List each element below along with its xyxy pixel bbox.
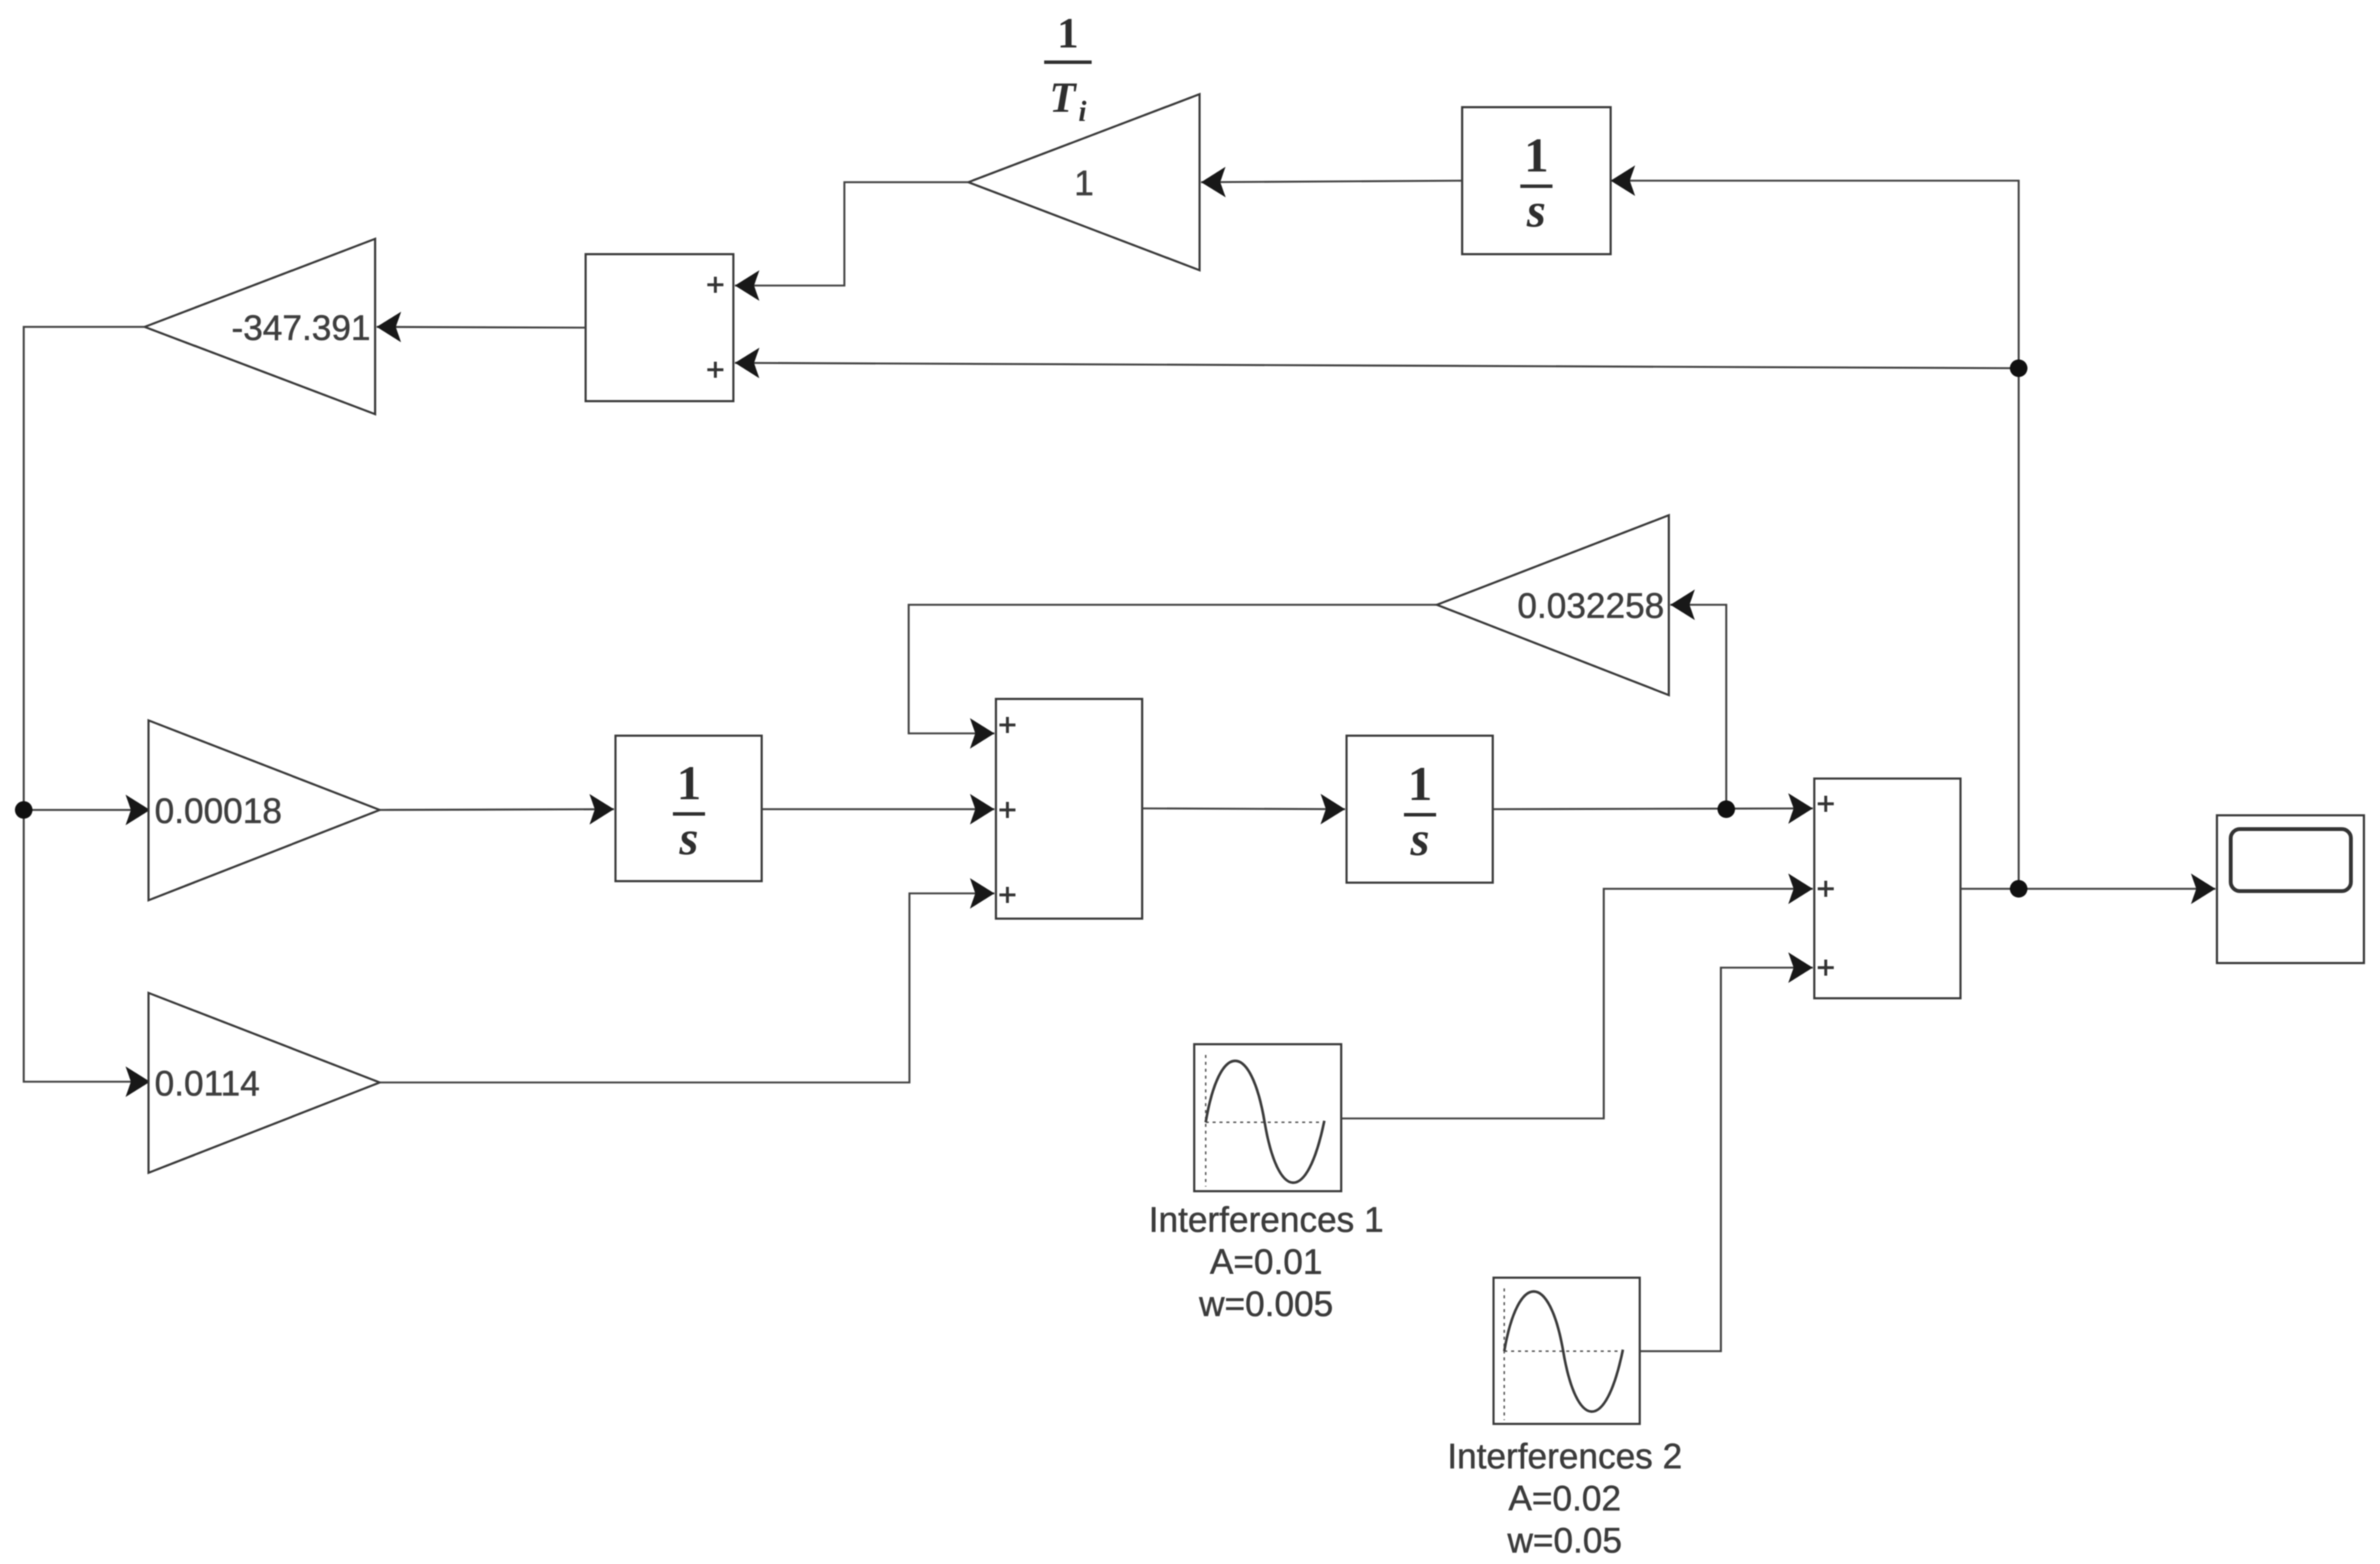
svg-text:s: s [1526,183,1546,237]
sine source W2 block [1494,1278,1640,1424]
svg-text:1: 1 [1524,128,1549,182]
integrator I2 block 1/s [615,736,762,881]
junction dot before sum S2 [1718,801,1735,818]
wire from sum S2 output junction up and left into integrator I1 [1611,181,2019,889]
svg-text:0.00018: 0.00018 [155,791,282,831]
junction dot left [15,802,33,819]
svg-text:s: s [679,811,699,865]
svg-text:s: s [1410,811,1430,866]
wire gain G2 output to sum S1 top input (feedback) [909,605,1437,733]
sum S2 plus sign mid [1818,881,1834,897]
sum S1 block [996,699,1142,919]
sum S2 plus sign top [1818,796,1834,812]
wire gain G4 output to sum S1 bottom input [380,893,994,1082]
wire sine W2 output to sum S2 bottom input [1640,968,1813,1351]
sum S2 block [1814,779,1960,998]
sum S0 block [586,254,733,401]
integrator I1 block 1/s [1462,107,1611,254]
wire integrator I3 output to sum S2 top input [1493,808,1813,809]
sine W1 curve [1206,1061,1324,1183]
sum S1 plus sign bottom [1000,887,1016,903]
svg-text:A=0.02: A=0.02 [1508,1478,1621,1518]
sine W1 dashed axes [1205,1055,1206,1187]
junction dot on scope wire [2010,880,2028,898]
wire gain G3 output to integrator I2 [380,809,614,810]
svg-text:0.0114: 0.0114 [155,1063,260,1103]
wire sine W1 output to sum S2 mid input [1341,889,1813,1118]
svg-text:w=0.005: w=0.005 [1198,1284,1333,1324]
svg-text:Interferences 2: Interferences 2 [1448,1436,1683,1476]
sum S2 plus sign bottom [1818,960,1834,976]
scope block [2217,815,2364,963]
svg-text:0.032258: 0.032258 [1517,586,1664,625]
svg-text:T: T [1050,74,1078,122]
wire integrator I2 output to sum S1 mid input [762,808,994,811]
gain T1 name label fraction 1/Ti [1044,10,1092,128]
svg-text:Interferences 1: Interferences 1 [1149,1200,1384,1239]
gain T1 triangle (1/Ti, value 1) [968,94,1200,270]
wire gain G1 output down left side to gain G4 input [24,327,150,1082]
long feedback wire from junction at x2637 to sum S0 bottom input [735,363,2019,368]
sine W2 dashed axes [1503,1288,1505,1420]
svg-text:A=0.01: A=0.01 [1210,1242,1322,1282]
sum S1 plus sign mid [1000,802,1016,818]
sum S0 plus sign bottom [707,362,723,378]
wire sum S0 output to gain G1 input [377,327,586,328]
sine W2 curve [1504,1291,1623,1412]
gain G3 triangle 0.00018 [149,720,380,900]
gain G4 triangle 0.0114 [149,993,380,1173]
wire sum S1 output to integrator I3 [1142,808,1345,809]
svg-text:1: 1 [1408,756,1432,811]
gain G2 triangle 0.032258 [1437,515,1669,695]
wire branch from left junction to gain G3 input [24,809,150,811]
svg-text:1: 1 [1074,163,1094,203]
gain G1 triangle -347.391 [145,239,375,414]
svg-text:1: 1 [1057,10,1079,57]
integrator I3 block 1/s [1347,736,1493,883]
svg-text:i: i [1079,96,1087,128]
sum S0 plus sign top [707,277,723,293]
svg-text:1: 1 [677,756,701,810]
scope screen [2231,829,2351,891]
junction dot on long feedback wire [2010,360,2028,377]
wire sum S2 output to scope [1960,888,2215,890]
sine source W1 block [1194,1044,1341,1191]
sum S1 plus sign top [1000,717,1016,733]
wire gain T1 output to sum S0 top input (Z path) [735,182,968,286]
wire integrator I1 output to gain T1 input [1201,181,1462,182]
svg-text:-347.391: -347.391 [231,308,371,348]
svg-text:w=0.05: w=0.05 [1507,1520,1622,1560]
wire branch up from junction to gain G2 input [1670,605,1726,809]
